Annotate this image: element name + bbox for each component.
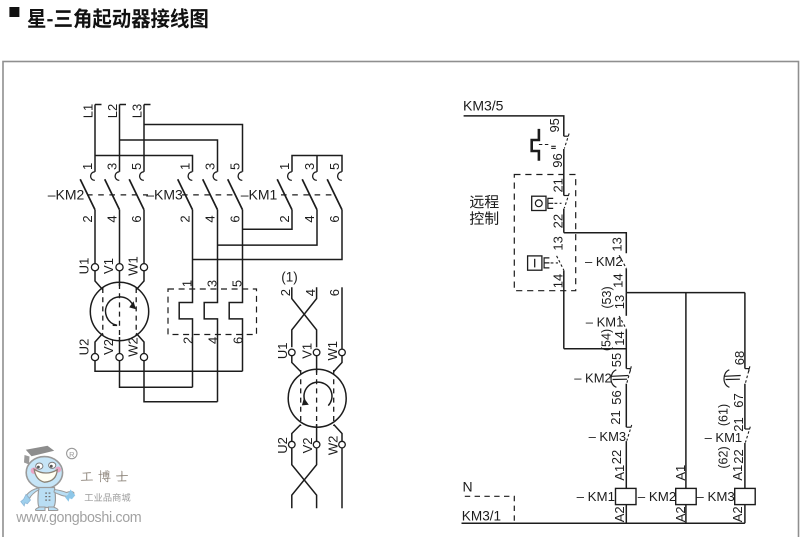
svg-text:A1: A1 [730,465,745,481]
contact blade [80,179,95,210]
wire U2 to link column 6 [95,361,243,372]
svg-text:KM3/5: KM3/5 [463,98,504,114]
stop button actuator [548,198,553,208]
phase line L2 [119,105,121,172]
motor2 terminal W2 [339,441,346,448]
svg-text:W1: W1 [126,256,141,276]
svg-text:U2: U2 [77,339,92,356]
motor M1 rotation arrow (clockwise) [106,297,133,326]
svg-text:5: 5 [227,163,242,170]
svg-text:– KM1: – KM1 [705,430,743,445]
overload relay F heater element [532,129,539,161]
branch wire to holding contact [564,233,627,254]
contact blade [277,179,292,210]
wire KM3 output 6 through link box [229,210,242,371]
svg-text:A1: A1 [673,465,688,481]
svg-text:–KM1: –KM1 [241,187,278,203]
wire KM2 aux to node [625,269,627,293]
coil KM1 [616,488,637,504]
remote control dashed box [514,175,575,291]
mechanical linkage dashes KM2 [87,194,148,196]
mechanical linkage dashes KM1 [281,194,337,196]
motor2 bottom wire W2 [341,448,343,508]
contact blade [302,179,317,210]
coil KM3 [735,488,756,504]
contact blade [203,179,218,210]
svg-text:L1: L1 [81,104,96,118]
svg-text:www.gongboshi.com: www.gongboshi.com [15,510,141,526]
svg-text:2: 2 [80,215,95,222]
svg-text:4: 4 [303,289,318,296]
svg-text:55: 55 [609,353,624,367]
logo mascot head [26,457,62,489]
small wrench icon [65,490,75,502]
fixed contact hook [238,172,242,181]
mascot buttons [45,493,50,501]
contact blade [105,179,120,210]
svg-text:U1: U1 [275,342,290,359]
svg-text:13: 13 [612,295,627,309]
wire KM3 coil to N [744,505,746,524]
dashed N feed [465,496,515,521]
wire KM1 aux to junction [625,329,627,368]
motor M2 internal dashed leads [300,370,302,426]
svg-text:–KM2: –KM2 [48,187,85,203]
svg-text:L2: L2 [105,104,120,118]
fixed contact hook [338,172,342,181]
svg-text:U2: U2 [275,437,290,454]
KM2 aux NO contact 13-14 [619,255,626,268]
motor M2 stator circle [288,369,346,427]
contact blade [228,179,243,210]
svg-text:– KM2: – KM2 [585,254,623,269]
label 控制 [470,211,498,225]
svg-text:13: 13 [610,237,625,251]
KM3 NC contact 21-22 [626,426,631,428]
motor1 terminal U1 [91,264,98,271]
svg-text:W1: W1 [325,341,340,361]
wire W2 to link column 4 [144,361,218,402]
KM1 timed NC contact 67-68 [745,368,749,370]
motor2 terminal U1 [289,349,296,356]
wire KM1 output 4 to column 3-4 [218,210,318,245]
svg-text:– KM3: – KM3 [696,489,734,504]
wire timed to KM1 NC [744,384,746,429]
svg-text:13: 13 [551,236,566,250]
label 远程 [470,195,499,209]
svg-text:3: 3 [205,280,220,287]
fixed contact hook [115,172,119,181]
wire start bottom [563,270,565,348]
wire L2 branch to KM3 pole 3 [120,140,218,172]
svg-text:21: 21 [551,178,566,192]
motor2 terminal V2 [313,441,320,448]
svg-text:1: 1 [80,163,95,170]
wire to KM3 NC [625,384,627,428]
motor1 terminal W2 [140,354,147,361]
N bus line [462,522,745,524]
supply line from KM3/5 [464,116,564,136]
mascot cheeks [31,468,38,474]
motor1 terminal V1 [116,264,123,271]
svg-text:A1: A1 [612,465,627,481]
svg-text:5: 5 [327,163,342,170]
coil KM2 [676,488,697,504]
svg-text:(62): (62) [717,446,731,468]
svg-text:67: 67 [731,393,746,407]
svg-text:2: 2 [177,215,192,222]
motor M1 stator circle [90,282,148,340]
svg-text:56: 56 [609,390,624,404]
mascot right eye [49,462,56,468]
svg-text:14: 14 [612,331,627,345]
start pushbutton head (I) [528,256,542,270]
svg-text:–KM3: –KM3 [146,187,183,203]
mascot smile [34,469,57,482]
svg-text:(61): (61) [717,404,731,426]
svg-text:– KM1: – KM1 [586,314,624,329]
fixed contact hook [213,172,217,181]
svg-text:(1): (1) [281,270,298,285]
mechanical linkage dashes KM3 [182,194,238,196]
svg-text:W2: W2 [325,436,340,456]
svg-text:5: 5 [230,280,245,287]
wire KM1 coil to N [625,505,627,524]
motor M2 winding leads [292,356,301,372]
branch wire KM3 [744,293,746,369]
svg-text:4: 4 [302,215,317,222]
svg-text:3: 3 [202,163,217,170]
svg-text:22: 22 [731,449,746,463]
motor M1 internal dashed leads [102,288,104,335]
motor2 crossed supply wires (2-4 swap) [292,287,317,347]
wire to KM3 coil [744,443,746,489]
svg-text:N: N [463,479,473,495]
overload NC contact 95-96 [564,135,569,137]
svg-text:96: 96 [550,153,565,167]
wire to KM1 coil [625,441,627,488]
mascot feet [35,507,45,511]
registered mark [67,448,77,458]
svg-text:– KM2: – KM2 [638,489,676,504]
svg-text:A2: A2 [730,506,745,522]
wire KM2 output to motor terminal V1 [119,210,121,264]
wire overload to stop button [563,149,565,196]
wire KM3 output 2 through link box [179,210,192,387]
svg-text:V2: V2 [101,339,116,355]
logo mascot graduation cap board [26,446,54,456]
phase line L1 [94,105,96,172]
wire stop to junction [563,209,565,233]
mascot body [38,488,55,508]
branch wire KM2 coil [685,293,687,489]
fixed contact hook [313,172,317,181]
svg-text:– KM1: – KM1 [577,489,615,504]
wire KM1 output 2 to column 5-6 [243,210,293,229]
motor2 supply wire 6 [341,287,343,349]
svg-text:4: 4 [202,215,217,222]
start button actuator [544,258,549,268]
svg-text:V1: V1 [300,343,315,359]
motor2 crossed bottom wires (U2-V2 swap) [292,448,317,508]
contact blade [327,179,342,210]
svg-text:L3: L3 [130,104,145,118]
svg-text:6: 6 [327,289,342,296]
svg-text:A2: A2 [612,506,627,522]
motor2 terminal U2 [289,441,296,448]
motor M2 rotation arrow (counter-clockwise) [304,382,332,405]
link box (dashed) [168,289,257,335]
svg-text:3: 3 [302,163,317,170]
svg-text:1: 1 [180,280,195,287]
motor1 terminal W1 [140,264,147,271]
svg-text:U1: U1 [77,258,92,275]
stop NC contact 21-22 [564,195,569,197]
wire KM1 output 6 to column 1-2 [193,210,343,260]
contact blade [129,179,144,210]
motor1 terminal U2 [91,354,98,361]
contact blade [178,179,193,210]
wire V2 to link column 2 [120,361,193,388]
title bullet square [9,7,19,17]
motor2 terminal W1 [339,349,346,356]
svg-text:21: 21 [608,410,623,424]
wire L3 branch to KM3 pole 5 [144,125,243,172]
svg-text:R: R [69,450,74,459]
node rail to KM2/KM3 branches [626,292,745,294]
svg-text:V2: V2 [300,437,315,453]
motor2 terminal V1 [313,349,320,356]
fixed contact hook [288,172,292,181]
svg-text:2: 2 [181,337,196,344]
fixed contact hook [91,172,95,181]
svg-text:1: 1 [177,163,192,170]
svg-text:– KM3: – KM3 [589,429,627,444]
svg-text:6: 6 [327,215,342,222]
svg-text:1: 1 [277,163,292,170]
mascot right arm [54,490,74,497]
svg-text:6: 6 [227,215,242,222]
svg-text:4: 4 [206,337,221,344]
wire L1 branch to KM3 pole 1 [95,156,193,172]
motor M1 winding leads (solid entries) [95,271,103,290]
KM2 timed NC contact 55-56 [626,368,630,370]
svg-text:3: 3 [104,163,119,170]
KM1 aux NO contact 53-54 [625,293,627,316]
fixed contact hook [188,172,192,181]
svg-text:95: 95 [547,118,562,132]
logo text 工业品商城 [85,493,131,502]
svg-text:– KM2: – KM2 [574,370,612,385]
wire KM2 output to motor terminal W1 [143,210,145,264]
phase line L3 [143,105,145,172]
svg-text:5: 5 [129,163,144,170]
star bridge bar feeding KM1 poles [292,156,342,172]
wire KM2 coil to N [685,505,687,524]
start NO contact 13-14 [557,256,564,270]
svg-text:4: 4 [104,215,119,222]
fixed contact hook [140,172,144,181]
motor1 terminal V2 [116,354,123,361]
logo mascot cap side [24,455,30,465]
svg-text:22: 22 [609,450,624,464]
wire KM2 output to motor terminal U1 [94,210,96,264]
wire joining start branch to coil column [564,348,627,350]
svg-text:6: 6 [129,215,144,222]
svg-text:V1: V1 [101,258,116,274]
svg-text:14: 14 [610,273,625,287]
title text 星-三角起动器接线图 [28,8,208,28]
mascot left arm with wrench [27,488,40,499]
KM1 NC contact 61-62 [745,428,750,430]
wire KM3 output 4 through link box [204,210,217,402]
svg-text:68: 68 [732,351,747,365]
overload trip linkage (dashed) [539,144,551,146]
svg-text:6: 6 [231,337,246,344]
svg-text:KM3/1: KM3/1 [462,508,501,523]
svg-text:2: 2 [277,215,292,222]
svg-text:2: 2 [278,289,293,296]
stop pushbutton head (O) [532,196,546,210]
logo text 工博士 [81,470,128,482]
svg-text:W2: W2 [126,337,141,357]
mascot left eye [36,463,43,469]
